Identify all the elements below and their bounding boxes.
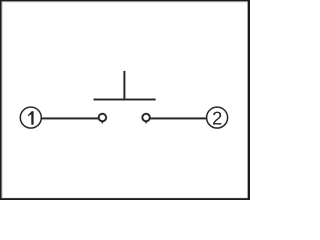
contact a bottom nub — [102, 122, 104, 123]
border frame — [0, 0, 250, 200]
contact b bottom nub — [145, 122, 147, 123]
soft halo pass — [20, 71, 227, 128]
border frame halo — [0, 0, 250, 200]
terminal 2 — [207, 107, 228, 128]
wire — [42, 117, 99, 119]
switch S1 — [20, 71, 227, 128]
actuator stem — [123, 71, 125, 100]
terminal 1 — [20, 107, 41, 128]
movable contact bar — [94, 99, 156, 101]
wire — [150, 117, 206, 119]
pin number 1 — [28, 111, 33, 124]
pin number 2 — [213, 112, 221, 125]
contact b — [142, 114, 150, 122]
contact a — [99, 114, 107, 122]
